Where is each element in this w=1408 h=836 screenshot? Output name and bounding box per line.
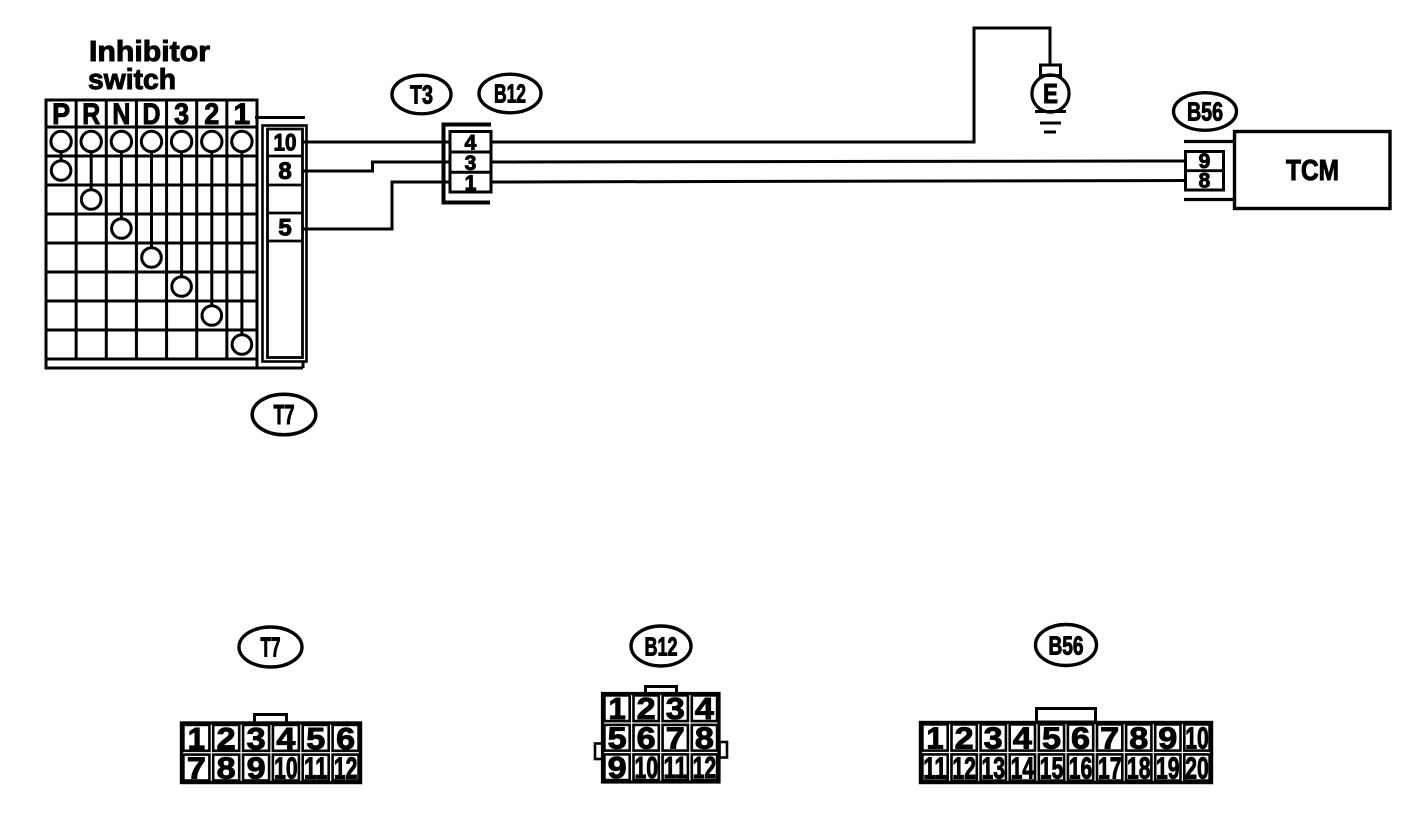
svg-text:switch: switch [88,64,176,96]
wire T7 pin8 to B12 pin3 [303,162,449,171]
contact circle position D [142,248,162,268]
pin 2 cell [952,724,977,750]
svg-text:8: 8 [217,751,236,786]
pin 6 cell [1068,724,1093,750]
pin 10 cell [1184,724,1209,750]
pin 17 cell [1097,754,1122,780]
svg-text:10: 10 [634,750,658,785]
connector B12 pin box [450,132,491,193]
contact circle position R [81,190,101,210]
svg-text:12: 12 [952,750,976,785]
switch body top link [255,116,305,119]
svg-text:15: 15 [1040,750,1064,785]
wire B12 pin4 to ground, with corners [491,28,1050,142]
svg-text:B12: B12 [645,632,678,662]
svg-text:P: P [52,98,70,131]
pin 8 cell [1126,724,1151,750]
pin 8 cell [692,725,717,751]
connector B12 keying tab [646,687,677,694]
svg-text:20: 20 [1185,750,1209,785]
wire B12 pin1 to B56 pin8 [491,181,1185,183]
connector designator B56 [1174,93,1237,131]
svg-text:T7: T7 [274,399,295,430]
connector T7 switch-side outline [263,126,307,362]
wire column R contact [90,151,93,191]
svg-text:R: R [82,98,100,131]
common contact circles row [51,131,71,151]
pin 11 cell [922,754,947,780]
contact circle position 3 [172,277,192,297]
pin 9 cell [1155,724,1180,750]
pin 12 cell [333,755,359,781]
pin 8 cell [213,755,239,781]
connector T7 keying tab [255,715,287,724]
wire column 2 contact [210,151,213,307]
pin 16 cell [1068,754,1093,780]
svg-text:1: 1 [465,172,477,195]
ground symbol E [1032,75,1069,112]
pin 12 cell [952,754,977,780]
connector designator B56 (pinout view) [1036,625,1097,666]
connector B56 top arm [1184,140,1235,143]
svg-text:18: 18 [1127,750,1151,785]
connector designator T7 (pinout view) [239,627,302,667]
pin 2 cell [634,695,659,721]
svg-text:11: 11 [923,750,947,785]
pin 5 cell [303,725,329,751]
contact circle position 2 [202,306,222,326]
switch body bottom strip [45,359,48,368]
svg-text:B56: B56 [1187,97,1223,127]
connector designator B12 (pinout view) [631,626,691,666]
svg-text:5: 5 [278,215,291,242]
svg-text:16: 16 [1069,750,1093,785]
svg-text:8: 8 [278,158,291,185]
wire column 1 contact [240,151,243,336]
contact circle position P [51,161,71,181]
wire column D contact [150,151,153,249]
TCM module U1 [1235,132,1391,209]
pin 4 cell [273,725,299,751]
svg-text:11: 11 [304,751,328,786]
pin 6 cell [634,725,659,751]
svg-text:9: 9 [247,751,266,786]
pin 10 cell [634,754,659,780]
svg-text:10: 10 [274,130,297,157]
pin 2 cell [213,725,239,751]
connector B56 keying tab [1037,709,1096,723]
pin 3 cell [243,725,269,751]
svg-text:B12: B12 [494,79,526,109]
svg-text:7: 7 [187,751,206,786]
ground hatching [1035,110,1066,113]
pin 7 cell [183,755,209,781]
svg-text:TCM: TCM [1286,155,1339,187]
connector T7 pinout 2x6 [182,723,361,783]
connector B56 pin box [1186,152,1224,191]
pin 11 cell [303,755,329,781]
pin 7 cell [663,725,688,751]
pin 12 cell [692,754,717,780]
inhibitor switch S1 contact grid [45,100,259,359]
ground terminal collar [1041,65,1061,76]
pin 10 cell [273,755,299,781]
wire column 3 contact [180,151,183,278]
pin 14 cell [1010,754,1035,780]
svg-text:T7: T7 [261,632,281,663]
svg-text:17: 17 [1098,750,1122,785]
connector designator T7 [252,394,316,435]
wire B12 pin3 to B56 pin9 [491,161,1185,162]
pin 7 cell [1097,724,1122,750]
pin 5 cell [604,725,629,751]
svg-text:N: N [112,98,130,131]
wire T7 pin5 to B12 pin1 [303,182,449,229]
svg-text:2: 2 [204,98,219,131]
svg-text:8: 8 [1199,170,1211,193]
svg-text:13: 13 [981,750,1005,785]
contact circle position 1 [232,335,252,355]
connector B12 pinout 3x4 [603,694,720,783]
pin 1 cell [183,725,209,751]
svg-text:B56: B56 [1049,631,1084,661]
connector B56 pinout 2x10 [921,723,1212,783]
svg-text:11: 11 [664,750,688,785]
pin 11 cell [663,754,688,780]
svg-text:E: E [1043,78,1058,109]
pin 18 cell [1126,754,1151,780]
connector B56 bottom arm [1184,198,1235,201]
connector T7 pin column [268,129,303,358]
pin 3 cell [981,724,1006,750]
pin 4 cell [1010,724,1035,750]
connector B12 right latch [720,742,728,758]
pin 1 cell [604,695,629,721]
pin 6 cell [333,725,359,751]
pin 1 cell [922,724,947,750]
svg-text:9: 9 [608,750,627,785]
pin 9 cell [604,754,629,780]
connector B12 left latch [595,744,603,760]
connector designator B12 [479,74,541,113]
pin 15 cell [1039,754,1064,780]
pin 19 cell [1155,754,1180,780]
wire column N contact [120,151,123,220]
wire T7 pin10 to B12 pin4 [303,141,449,144]
contact circle position N [112,219,132,239]
svg-text:1: 1 [234,98,251,131]
svg-text:12: 12 [693,750,717,785]
wire column P contact [60,151,63,162]
svg-text:14: 14 [1011,750,1035,785]
svg-text:10: 10 [274,751,298,786]
svg-text:19: 19 [1156,750,1180,785]
pin 20 cell [1184,754,1209,780]
pin 4 cell [692,695,717,721]
pin 3 cell [663,695,688,721]
svg-text:D: D [143,98,161,131]
connector T3 bracket [444,125,492,203]
pin 5 cell [1039,724,1064,750]
pin 9 cell [243,755,269,781]
svg-text:12: 12 [334,751,358,786]
pin 13 cell [981,754,1006,780]
connector designator T3 [392,75,451,114]
svg-text:3: 3 [174,98,189,131]
svg-text:T3: T3 [410,80,433,110]
